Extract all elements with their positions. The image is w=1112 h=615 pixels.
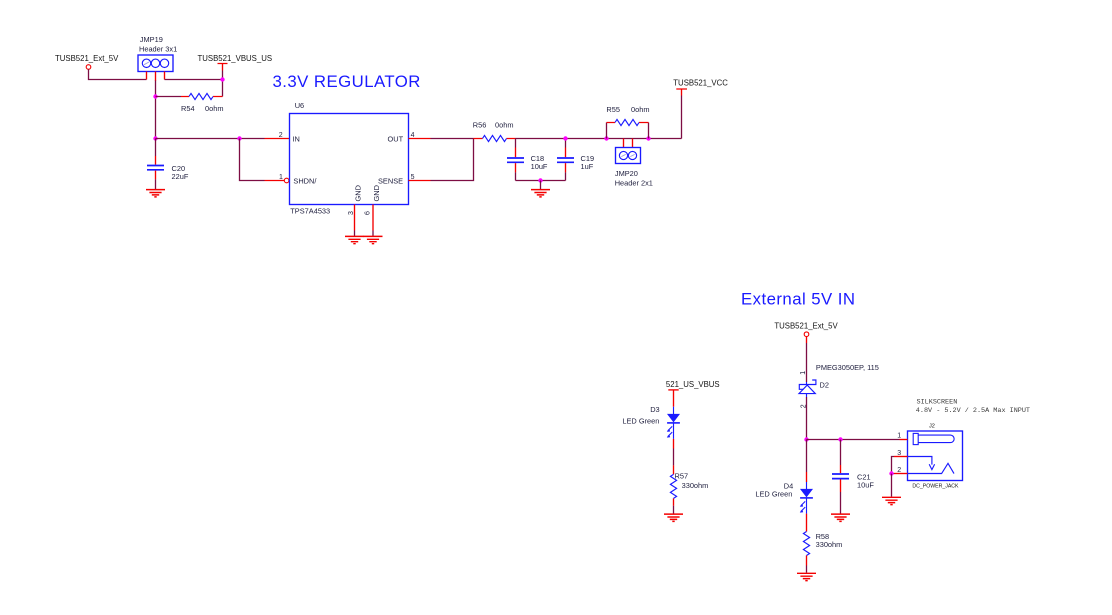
svg-text:R57: R57 [675,471,689,480]
svg-text:3.3V REGULATOR: 3.3V REGULATOR [273,72,421,91]
svg-text:521_US_VBUS: 521_US_VBUS [666,380,720,389]
junction R54 left [153,94,157,98]
svg-text:1: 1 [897,433,901,440]
junction J2 gnd node [889,471,893,475]
svg-text:D3: D3 [650,405,659,414]
LED D4 Green [755,440,813,514]
wire JMP19 pin2 down [155,81,157,139]
capacitor C21 10uF [832,440,874,514]
svg-text:R56: R56 [473,121,487,130]
wire SHDN branch [240,139,265,181]
capacitor C18 10uF [507,139,548,181]
svg-text:R55: R55 [606,105,620,114]
wire D3 to R57 [673,439,675,449]
regulator U6 TPS7A4533 [290,101,409,215]
connector JMP20 Header 2x1 [615,139,653,188]
node TUSB521_Ext_5V bottom port [774,322,838,337]
pin 3 stub of J2 [894,456,908,458]
svg-text:Header 2x1: Header 2x1 [615,178,653,187]
svg-text:IN: IN [293,134,300,143]
svg-text:TPS7A4533: TPS7A4533 [290,206,330,215]
svg-text:330ohm: 330ohm [816,540,843,549]
ground under C20 [146,190,165,197]
svg-text:Header 3x1: Header 3x1 [139,45,177,54]
svg-text:TUSB521_Ext_5V: TUSB521_Ext_5V [55,54,119,63]
pin OUT stub [409,138,431,140]
wire OUT to R56 [431,138,474,140]
wire C18-C19 bottom [516,180,566,182]
wire JMP19 pin3 to VBUS node [165,79,223,81]
svg-text:LED Green: LED Green [622,417,659,426]
resistor R55 0ohm bypass [606,105,649,139]
capacitor C19 1uF [557,139,594,181]
junction R55 right [646,136,650,140]
capacitor C20 22uF [147,139,189,190]
wire J2 pin3 to pin2 [892,457,895,474]
ground under R58 [797,573,816,580]
svg-text:1uF: 1uF [581,162,594,171]
svg-text:JMP19: JMP19 [140,35,163,44]
ground under GND6 [364,236,383,243]
svg-text:J2: J2 [929,424,935,430]
svg-text:3: 3 [897,450,901,457]
svg-text:2: 2 [279,132,283,139]
svg-text:10uF: 10uF [857,481,874,490]
svg-text:3: 3 [348,211,355,215]
wire to J2 ground [891,474,893,497]
svg-text:1: 1 [279,174,283,181]
ground under C18/C19 [531,190,550,197]
wire junction to R54 [156,96,182,98]
wire 5V node to J2 [807,439,900,441]
svg-text:22uF: 22uF [172,172,189,181]
junction VBUS [220,77,224,81]
wire D2 to 5V node [806,397,808,440]
svg-text:GND: GND [354,185,363,201]
junction caps gnd [538,178,542,182]
pin 2 stub of U6 [265,138,290,140]
svg-text:0ohm: 0ohm [205,104,224,113]
wire VBUS down to R54 right [222,71,224,97]
wire Ext_5V to JMP19 pin1 [89,69,147,79]
svg-text:SHDN/: SHDN/ [293,177,317,186]
svg-text:SENSE: SENSE [378,177,403,186]
junction 5V node [804,437,808,441]
svg-text:SILKSCREEN: SILKSCREEN [917,399,958,407]
LED D3 Green [622,405,680,439]
ground under R57 [664,514,683,521]
resistor R58 330ohm [803,532,842,566]
pin 2 stub of J2 [894,473,908,475]
svg-text:OUT: OUT [388,134,404,143]
svg-text:PMEG3050EP, 115: PMEG3050EP, 115 [816,363,879,372]
junction R55 left [604,136,608,140]
svg-text:0ohm: 0ohm [495,121,514,130]
svg-text:JMP20: JMP20 [615,169,638,178]
junction SHDN branch [237,136,241,140]
svg-text:1: 1 [800,371,807,375]
svg-text:GND: GND [372,185,381,201]
pin GND3 stub [354,205,356,231]
svg-text:6: 6 [364,211,371,215]
junction IN node [153,136,157,140]
connector JMP19 Header 3x1 [138,35,177,81]
resistor R54 0ohm [181,93,224,113]
svg-text:TUSB521_VCC: TUSB521_VCC [673,79,728,88]
svg-text:0ohm: 0ohm [631,105,650,114]
svg-text:330ohm: 330ohm [682,481,709,490]
wire 521_US_VBUS down [673,390,675,407]
wire IN node to pin2 of U6 [156,138,265,140]
wire D4 to R58 [806,514,808,532]
connector J2 DC_POWER_JACK [908,424,963,490]
junction C21 top [838,437,842,441]
pin 1 stub of J2 [900,439,908,441]
resistor R57 330ohm [670,465,708,505]
wire main 3.3V rail [516,138,682,140]
ground under GND3 [345,236,364,243]
node TUSB521_VCC [673,79,728,96]
svg-text:DC_POWER_JACK: DC_POWER_JACK [912,483,959,489]
pin 1 stub of U6 with invert circle [265,180,285,182]
resistor R56 0ohm [473,121,516,142]
ground under C21 [831,514,850,521]
ground under J2 [882,497,901,504]
junction C19 top [563,136,567,140]
svg-text:TUSB521_Ext_5V: TUSB521_Ext_5V [774,322,838,331]
wire VCC down to rail [681,96,683,139]
node TUSB521_VBUS_US [198,54,273,71]
node TUSB521_Ext_5V top-left port [55,54,119,69]
silkscreen note [916,399,1030,415]
svg-text:External 5V IN: External 5V IN [741,289,856,308]
svg-text:LED Green: LED Green [755,489,792,498]
svg-text:R54: R54 [181,104,195,113]
svg-text:U6: U6 [295,101,304,110]
svg-text:10uF: 10uF [531,162,548,171]
svg-text:2: 2 [897,467,901,474]
wire Ext_5V down to D2 [806,337,808,344]
svg-text:D2: D2 [820,380,829,389]
svg-text:TUSB521_VBUS_US: TUSB521_VBUS_US [198,54,273,63]
diode D2 PMEG3050EP schottky [799,363,879,408]
wire SENSE joins OUT net [431,139,474,181]
node 521_US_VBUS [666,380,720,390]
svg-text:4.8V - 5.2V / 2.5A Max INPUT: 4.8V - 5.2V / 2.5A Max INPUT [916,407,1030,415]
pin SENSE stub [409,180,431,182]
pin GND6 stub [372,205,374,231]
